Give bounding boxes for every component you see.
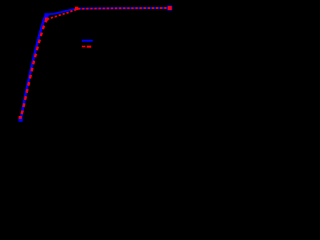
knee marker blue — [44, 13, 48, 17]
end marker red — [168, 6, 172, 10]
red series line shoulder (dashed, below blue) — [47, 8, 170, 19]
blue series line steep (solid) — [21, 15, 46, 120]
legend red dash 1 — [82, 46, 86, 48]
start marker red — [19, 116, 22, 119]
end marker blue — [167, 6, 172, 11]
red series line steep section (dashed) — [20, 19, 47, 117]
small red marker on shoulder — [75, 7, 78, 10]
legend blue line — [82, 40, 93, 42]
legend red dash 2 with marker — [87, 46, 91, 48]
start marker blue — [19, 118, 23, 122]
knee marker red — [45, 18, 48, 21]
blue series line shoulder+plateau (solid) — [46, 8, 170, 15]
